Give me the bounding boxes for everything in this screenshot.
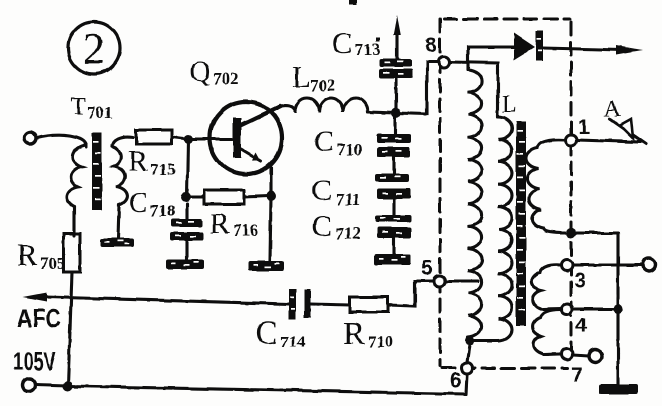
diode D — [514, 33, 535, 60]
label 105V — [13, 346, 56, 376]
node L702/C710 junction — [391, 108, 401, 118]
transformer T701 secondary winding — [112, 137, 133, 205]
wire C710 to C711 — [392, 157, 395, 174]
bottom plate — [374, 254, 411, 265]
coil bottom junction — [466, 337, 475, 346]
winding junction — [566, 228, 576, 238]
input terminal left — [24, 132, 36, 144]
svg-text:5: 5 — [421, 257, 433, 280]
svg-text:711: 711 — [336, 190, 361, 209]
wire diode out with arrow — [543, 48, 622, 50]
105V terminal and bottom rail — [23, 379, 36, 392]
resistor R715 — [136, 130, 172, 144]
label L — [502, 92, 517, 118]
wire emitter junction to ground — [270, 196, 271, 261]
ground (emitter) — [248, 261, 284, 271]
svg-text:4: 4 — [575, 314, 587, 337]
svg-text:R: R — [17, 237, 38, 272]
label C712 — [312, 210, 361, 243]
svg-text:2: 2 — [83, 24, 105, 73]
svg-text:705: 705 — [40, 254, 66, 273]
wire C713 top with arrow — [395, 27, 398, 59]
svg-text:710: 710 — [368, 332, 394, 351]
label A — [604, 96, 621, 121]
wire bias junction to R716 — [186, 195, 204, 198]
inductor L702 — [295, 98, 368, 112]
inductor L middle coil — [498, 117, 512, 341]
small tick top edge — [349, 0, 357, 5]
svg-text:L: L — [502, 92, 517, 118]
inductor L big primary coil — [468, 70, 482, 338]
label C718 — [129, 188, 176, 220]
junction on right rail — [613, 304, 623, 314]
node base junction — [184, 135, 193, 144]
label node 4 — [575, 314, 587, 337]
label R716 — [210, 208, 259, 240]
ground right — [599, 384, 638, 394]
node 8 — [439, 57, 450, 68]
node emitter junction — [266, 191, 276, 201]
transistor Q702 — [210, 102, 282, 196]
capacitor C713 — [394, 77, 397, 113]
label R705 — [17, 237, 66, 273]
svg-text:715: 715 — [150, 160, 176, 179]
resistor R716 — [204, 190, 244, 204]
ground (C718) — [166, 259, 204, 269]
terminal right (node 3 output) — [643, 259, 656, 272]
label R710 — [343, 316, 394, 352]
svg-text:C: C — [312, 210, 332, 243]
wire base junction down — [187, 139, 188, 197]
svg-text:C: C — [332, 25, 353, 60]
label node 1 — [578, 116, 590, 139]
wire secondary bottom to ground — [118, 205, 119, 239]
winding node4-node7 — [533, 310, 561, 354]
capacitor C714 — [311, 304, 350, 305]
wire node1 to antenna — [577, 140, 640, 142]
wire node5 tap to big coil — [445, 279, 478, 282]
svg-text:718: 718 — [150, 201, 176, 220]
svg-text:C: C — [255, 315, 278, 352]
svg-text:C: C — [129, 188, 148, 219]
wire input to T701 primary — [37, 135, 86, 147]
svg-text:7: 7 — [571, 364, 583, 387]
svg-text:710: 710 — [337, 140, 363, 159]
right rail — [616, 233, 619, 384]
dashed box — [440, 19, 571, 368]
label Q702 — [190, 57, 239, 88]
wire node5 to R710 — [388, 281, 433, 306]
node 4 — [562, 304, 573, 315]
wire node3 to right terminal — [573, 263, 642, 266]
svg-text:701: 701 — [87, 103, 113, 122]
wire node8 to middle coil — [450, 62, 498, 117]
svg-text:6: 6 — [450, 369, 462, 392]
wire R705 to bottom rail — [68, 272, 72, 386]
svg-text:8: 8 — [425, 34, 437, 57]
svg-text:3: 3 — [574, 269, 586, 292]
label node 3 — [574, 269, 586, 292]
svg-text:1: 1 — [578, 116, 590, 139]
node 7 — [562, 349, 573, 360]
ground (T701 secondary) — [100, 238, 134, 247]
svg-text:Q: Q — [190, 57, 210, 88]
terminal node 7 — [589, 350, 602, 363]
label node 8 — [425, 34, 437, 57]
svg-text:AFC: AFC — [17, 303, 61, 333]
svg-text:712: 712 — [335, 224, 361, 243]
capacitor C718 — [170, 219, 204, 241]
label node 6 — [450, 369, 462, 392]
svg-text:714: 714 — [280, 332, 306, 351]
label AFC — [17, 303, 61, 333]
svg-text:R: R — [343, 316, 365, 352]
junction bottom left — [63, 381, 73, 391]
svg-text:R: R — [210, 208, 230, 240]
figure number circle 2 — [68, 22, 120, 74]
node 5 — [434, 276, 445, 287]
label R715 — [128, 145, 176, 179]
wire R716 to emitter junction — [244, 196, 268, 197]
capacitor C711 — [375, 174, 411, 199]
node 6 — [462, 363, 473, 374]
capacitor C712 — [375, 215, 411, 238]
label C711 — [312, 174, 361, 209]
wire C712 to bottom plate — [392, 238, 395, 254]
label node 5 — [421, 257, 433, 280]
wire collector to L702 — [278, 106, 295, 111]
wire C711 to C712 — [392, 199, 395, 215]
svg-text:716: 716 — [233, 221, 259, 240]
wire diode line and big coil feed — [468, 47, 514, 70]
label T701 — [71, 93, 113, 122]
winding node3-node4 — [532, 265, 561, 310]
svg-text:702: 702 — [310, 76, 336, 95]
svg-text:T: T — [71, 93, 86, 120]
core of L — [516, 121, 526, 326]
wire L702 to junction — [368, 112, 396, 113]
svg-text:C: C — [314, 125, 334, 158]
wire primary bottom to R705 — [72, 206, 75, 236]
node bias junction — [181, 192, 191, 202]
label C714 — [255, 315, 306, 352]
svg-text:713: 713 — [355, 40, 381, 59]
svg-text:105V: 105V — [13, 346, 56, 376]
resistor R710 — [350, 297, 388, 312]
right winding 1 (node1 to junction) — [566, 135, 577, 146]
svg-text:R: R — [128, 145, 148, 178]
wire junction to node 8 — [396, 62, 439, 114]
label C713 — [332, 25, 381, 60]
node 3 — [562, 260, 573, 271]
wire node7 to terminal — [573, 355, 588, 356]
resistor R705 — [64, 234, 80, 272]
label node 7 — [571, 364, 583, 387]
antenna A — [610, 119, 646, 144]
label L702 — [292, 59, 336, 95]
wire R715 to base junction — [172, 137, 232, 139]
transformer T701 primary winding — [67, 145, 86, 206]
svg-text:L: L — [292, 59, 311, 94]
label C710 — [314, 125, 363, 159]
AFC line with arrow — [46, 297, 289, 304]
wire node4 to rail — [573, 307, 616, 310]
svg-text:A: A — [604, 96, 621, 121]
capacitor C710 — [393, 113, 396, 134]
transformer T701 core — [92, 133, 102, 210]
svg-text:702: 702 — [213, 69, 239, 88]
svg-text:C: C — [312, 174, 332, 207]
